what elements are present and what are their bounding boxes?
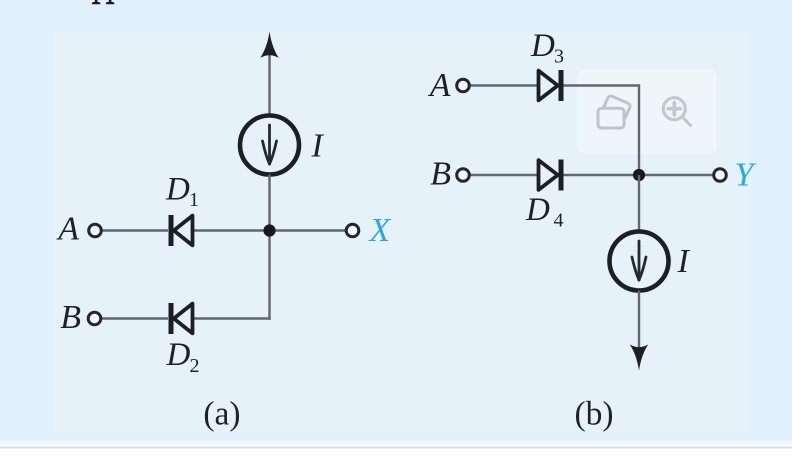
diode D1 — [171, 215, 193, 246]
wire: junction down to current source (b) — [638, 175, 640, 232]
bottom fade band — [0, 441, 792, 448]
cut-off header text "11" (bottom serif feet of two digits) — [92, 0, 114, 4]
wire: B input to diode D4 — [469, 174, 537, 176]
svg-text:D: D — [530, 28, 555, 64]
svg-text:B: B — [430, 156, 451, 193]
highlight patch behind cut text — [89, 0, 96, 3]
terminal B (a) — [88, 312, 101, 325]
svg-text:I: I — [311, 128, 325, 165]
overlay toolbar panel — [577, 69, 717, 154]
terminal A (b) — [457, 79, 470, 92]
svg-text:I: I — [677, 243, 691, 280]
svg-text:1: 1 — [189, 189, 199, 211]
wire: vertical lead from top arrow to current source (a) — [268, 50, 270, 116]
wire: corner down to junction (b) — [638, 86, 640, 176]
inner figure background — [53, 32, 751, 432]
copy icon — [598, 95, 631, 128]
current source arrow inside (b) — [632, 241, 646, 280]
svg-text:D: D — [525, 192, 550, 228]
magnifier icon — [663, 98, 690, 126]
terminal Y — [714, 169, 727, 182]
svg-text:A: A — [56, 211, 79, 248]
wire: current source down to bottom arrow — [638, 291, 640, 353]
diode D2 — [171, 303, 193, 334]
current source U-a circle — [240, 116, 299, 175]
diode D3 — [539, 70, 562, 101]
svg-text:(a): (a) — [203, 396, 240, 433]
wire: B input to diode D2 — [101, 317, 169, 319]
wire: diode D3 to corner — [561, 84, 640, 86]
terminal A (a) — [89, 224, 102, 237]
wire: A input to diode D1 — [101, 229, 168, 231]
svg-text:Y: Y — [735, 157, 757, 194]
svg-text:4: 4 — [554, 210, 564, 232]
diode D4 — [539, 160, 562, 191]
current source U-b circle — [610, 232, 669, 291]
terminal X — [346, 224, 359, 237]
wire: diode D2 to corner — [192, 317, 271, 319]
svg-text:B: B — [60, 299, 81, 336]
terminal B (b) — [457, 169, 470, 182]
wire: vertical from current source down to corner of B branch — [268, 175, 270, 320]
wire: diode D1 to X terminal — [192, 229, 346, 231]
svg-text:3: 3 — [554, 46, 564, 68]
svg-text:A: A — [428, 67, 451, 104]
wire: diode D4 to junction and Y terminal — [561, 174, 714, 176]
svg-text:(b): (b) — [574, 396, 613, 433]
arrowhead up at top of (a) — [260, 32, 278, 58]
current source arrow inside (a) — [263, 125, 277, 164]
svg-text:2: 2 — [190, 355, 200, 377]
node junction (a) — [263, 224, 275, 236]
wire: A input to diode D3 — [469, 84, 537, 86]
node junction (b) — [633, 169, 645, 181]
svg-text:X: X — [368, 212, 392, 249]
bottom separator line — [0, 447, 792, 449]
svg-text:D: D — [165, 172, 190, 208]
svg-text:D: D — [166, 337, 191, 373]
arrowhead down at bottom of (b) — [630, 345, 648, 371]
